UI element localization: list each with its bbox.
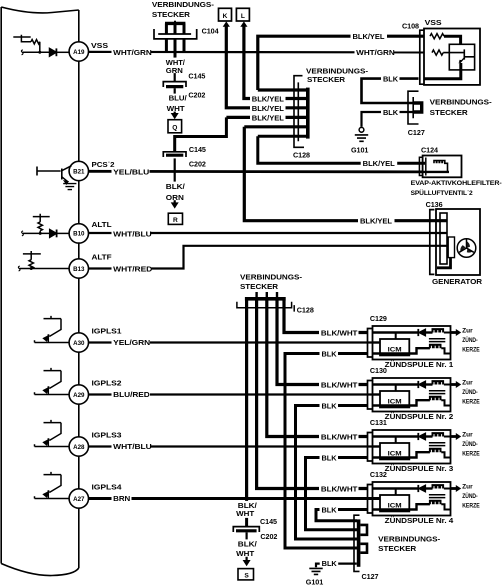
svg-text:BLK/: BLK/ bbox=[238, 540, 257, 549]
driver symbol at B21 (transistor to ground) bbox=[37, 166, 76, 190]
svg-text:WHT/BLU: WHT/BLU bbox=[113, 229, 152, 238]
svg-text:BRN: BRN bbox=[113, 494, 130, 503]
arrow into box R bbox=[171, 202, 179, 208]
svg-text:Zur: Zur bbox=[462, 379, 473, 386]
connector C145 (bottom) bbox=[233, 527, 259, 561]
svg-text:BLK/YEL: BLK/YEL bbox=[252, 114, 285, 123]
svg-text:A30: A30 bbox=[73, 340, 85, 347]
svg-text:KERZE: KERZE bbox=[462, 451, 480, 458]
svg-text:L: L bbox=[241, 13, 245, 20]
wire WHT/BLU A28 to coil 3 bbox=[89, 445, 381, 447]
wire pin 5 to coil 1 BLK/WHT bbox=[284, 301, 368, 333]
arrow into box S bbox=[243, 560, 251, 566]
wire WHT/RED B13 to generator bbox=[89, 246, 448, 269]
junction connector C127 (top) bbox=[408, 91, 422, 124]
svg-text:YEL/BLU: YEL/BLU bbox=[113, 167, 149, 176]
svg-text:SPÜLLUFTVENTIL˙2: SPÜLLUFTVENTIL˙2 bbox=[411, 188, 473, 197]
box R bbox=[168, 213, 182, 224]
wire label WHT/GRN (right) bbox=[355, 47, 395, 57]
wire WHT/GRN A19 to VSS bbox=[89, 51, 425, 54]
wire label BLK (coil1) bbox=[320, 349, 339, 359]
svg-text:C145: C145 bbox=[189, 145, 206, 154]
wire junction pin 1 to BLK/YEL bbox=[258, 88, 307, 91]
svg-text:KERZE: KERZE bbox=[462, 503, 480, 510]
wire label BLU/ WHT bbox=[165, 94, 186, 114]
svg-text:A28: A28 bbox=[73, 444, 85, 451]
ECM boundary top wavy edge bbox=[1, 7, 79, 13]
svg-text:KERZE: KERZE bbox=[462, 347, 480, 354]
svg-text:BLK: BLK bbox=[322, 505, 338, 514]
sensor VSS (C108) bbox=[420, 29, 480, 85]
wire label BLK/YEL (EVAP) bbox=[361, 159, 398, 169]
svg-text:C202: C202 bbox=[188, 91, 205, 100]
junction connector C128 (top) busbar bbox=[306, 88, 310, 139]
wire label WHT/ GRN (branch) bbox=[164, 58, 186, 75]
svg-text:BLU/RED: BLU/RED bbox=[113, 390, 150, 399]
ground G101 (bottom) bbox=[309, 568, 322, 574]
wire label BRN bbox=[112, 493, 132, 503]
svg-text:BLK: BLK bbox=[322, 401, 338, 410]
wire label BLK (coil3) bbox=[320, 453, 339, 463]
svg-text:G101: G101 bbox=[351, 145, 368, 154]
ignition coil unit 3 (C131, ZÜNDSPULE Nr.3) bbox=[368, 430, 462, 464]
wire pin 4 to coil 2 BLK/WHT bbox=[277, 301, 368, 385]
svg-text:ALTL: ALTL bbox=[92, 220, 113, 229]
wire BLK/YEL to generator bbox=[244, 127, 447, 221]
svg-text:BLK/YEL: BLK/YEL bbox=[360, 216, 393, 225]
svg-text:BLK/WHT: BLK/WHT bbox=[321, 381, 358, 390]
svg-text:C202: C202 bbox=[260, 532, 277, 541]
svg-text:BLK/: BLK/ bbox=[166, 182, 185, 191]
wire BLU/RED A29 to coil 2 bbox=[89, 393, 381, 395]
svg-text:C131: C131 bbox=[370, 418, 387, 427]
wire YEL/GRN A30 to coil 1 bbox=[89, 341, 381, 343]
wire label BLK/YEL (pin4) bbox=[250, 113, 286, 123]
ignition coil unit 1 (C129, ZÜNDSPULE Nr.1) bbox=[368, 326, 462, 360]
driver symbol at A19 (resistor + diode) bbox=[13, 35, 69, 57]
wire label WHT/GRN bbox=[112, 47, 152, 57]
wire label WHT/BLU (IGPLS3) bbox=[112, 441, 152, 451]
wire BLK C127 to G101 bbox=[362, 112, 415, 127]
svg-text:GENERATOR: GENERATOR bbox=[432, 277, 483, 286]
box S bbox=[238, 569, 254, 580]
svg-text:IGPLS2: IGPLS2 bbox=[92, 378, 122, 387]
svg-text:VSS: VSS bbox=[425, 18, 442, 27]
svg-text:WHT/GRN: WHT/GRN bbox=[113, 48, 152, 57]
driver symbol at A30 (transistor) bbox=[35, 316, 70, 343]
svg-text:VERBINDUNGS-: VERBINDUNGS- bbox=[378, 534, 441, 543]
pin circle A27 bbox=[69, 489, 88, 508]
svg-text:BLU/: BLU/ bbox=[169, 94, 187, 103]
svg-text:K: K bbox=[223, 13, 228, 20]
svg-text:ZÜND-: ZÜND- bbox=[462, 337, 478, 344]
svg-text:C145: C145 bbox=[260, 517, 277, 526]
svg-text:STECKER: STECKER bbox=[307, 75, 346, 84]
svg-text:VERBINDUNGS-: VERBINDUNGS- bbox=[152, 0, 215, 9]
svg-text:C127: C127 bbox=[362, 572, 379, 581]
wire BLK/YEL thick to VSS bbox=[258, 36, 424, 90]
svg-text:BLK: BLK bbox=[322, 349, 338, 358]
svg-text:BLK/WHT: BLK/WHT bbox=[321, 485, 358, 494]
svg-text:BLK: BLK bbox=[322, 453, 338, 462]
svg-text:STECKER: STECKER bbox=[378, 544, 417, 553]
svg-text:STECKER: STECKER bbox=[430, 108, 469, 117]
wire label BLK/YEL (pin3) bbox=[250, 104, 286, 114]
svg-text:VSS: VSS bbox=[91, 41, 108, 50]
svg-text:GRN: GRN bbox=[166, 66, 183, 75]
wire K stem to junction pin 3 bbox=[226, 25, 306, 108]
pin circle B21 bbox=[69, 161, 88, 180]
junction connector C128 (top) bracket bbox=[294, 76, 304, 148]
svg-text:C132: C132 bbox=[370, 470, 387, 479]
wire label WHT/BLU bbox=[112, 229, 152, 239]
driver symbol at A27 (transistor) bbox=[35, 472, 70, 499]
svg-text:ICM: ICM bbox=[388, 399, 402, 406]
pin circle A29 bbox=[69, 385, 88, 404]
svg-text:C202: C202 bbox=[189, 160, 206, 169]
wire L stem to junction pin 2 bbox=[244, 25, 307, 99]
svg-text:VERBINDUNGS-: VERBINDUNGS- bbox=[240, 273, 303, 282]
arrow into box Q bbox=[171, 113, 179, 119]
svg-text:BLK: BLK bbox=[383, 108, 399, 117]
ignition coil unit 4 (C132, ZÜNDSPULE Nr.4) bbox=[368, 482, 462, 516]
ignition coil unit 2 (C130, ZÜNDSPULE Nr.2) bbox=[368, 378, 462, 412]
svg-text:ALTF: ALTF bbox=[92, 252, 113, 261]
svg-text:WHT: WHT bbox=[236, 509, 255, 518]
svg-text:BLK: BLK bbox=[322, 559, 338, 568]
svg-text:KERZE: KERZE bbox=[462, 399, 480, 406]
svg-text:ZÜND-: ZÜND- bbox=[462, 389, 478, 396]
wire label BLK/ ORN bbox=[164, 182, 186, 202]
svg-text:C145: C145 bbox=[188, 71, 205, 80]
driver symbol at B10 (resistor + diode) bbox=[22, 214, 69, 238]
ECM boundary bottom wavy edge bbox=[1, 564, 79, 576]
wire label BLK/WHT (coil4) bbox=[319, 484, 359, 494]
wire label BLK (to C127 bottom) bbox=[320, 558, 339, 568]
wire pin 2 to coil 4 BLK/WHT bbox=[257, 301, 368, 489]
svg-text:ZÜNDSPULE Nr. 3: ZÜNDSPULE Nr. 3 bbox=[385, 464, 454, 473]
svg-text:IGPLS3: IGPLS3 bbox=[92, 430, 122, 439]
wire coil 2 BLK to C127 bbox=[296, 406, 368, 540]
wire YEL/BLU B21 to EVAP bbox=[89, 170, 423, 173]
box K with arrow bbox=[219, 8, 232, 27]
svg-text:WHT: WHT bbox=[167, 104, 186, 113]
svg-text:R: R bbox=[173, 217, 178, 224]
box Q bbox=[168, 120, 182, 133]
condenser branch: stem, C145/C202, arrow, box S bbox=[245, 499, 248, 527]
svg-text:S: S bbox=[244, 572, 249, 579]
pin circle A30 bbox=[69, 333, 88, 352]
svg-text:ICM: ICM bbox=[388, 347, 402, 354]
svg-text:BLK/YEL: BLK/YEL bbox=[353, 32, 386, 41]
svg-text:A29: A29 bbox=[73, 392, 85, 399]
svg-text:ZÜND-: ZÜND- bbox=[462, 493, 478, 500]
wire junction pin 4 bbox=[226, 116, 306, 119]
ground G101 (top) bbox=[355, 127, 368, 141]
svg-text:BLK: BLK bbox=[383, 74, 399, 83]
svg-text:C128: C128 bbox=[293, 151, 310, 160]
connector C104 bbox=[154, 21, 197, 58]
wire label BLK/WHT (coil3) bbox=[319, 432, 359, 442]
junction connector C128 (bottom) bbox=[237, 292, 294, 312]
wire label BLK/ WHT (upper condenser) bbox=[236, 501, 258, 518]
wire label YEL/GRN bbox=[112, 337, 151, 347]
svg-text:WHT/RED: WHT/RED bbox=[113, 265, 152, 274]
wire BLK C127 to G101 (bottom) bbox=[316, 564, 357, 568]
svg-text:C108: C108 bbox=[402, 21, 419, 30]
connector C145 (top, on WHT/GRN branch) bbox=[163, 56, 186, 114]
svg-text:B21: B21 bbox=[73, 168, 85, 175]
svg-text:C127: C127 bbox=[408, 128, 425, 137]
wire BRN A27 to coil 4 bbox=[89, 497, 381, 500]
svg-text:A27: A27 bbox=[73, 496, 85, 503]
svg-text:YEL/GRN: YEL/GRN bbox=[113, 338, 150, 347]
wire label BLK (coil4) bbox=[320, 505, 339, 515]
wire label WHT/RED bbox=[112, 264, 153, 274]
svg-text:A19: A19 bbox=[73, 49, 85, 56]
box L with arrow bbox=[236, 8, 249, 27]
svg-text:IGPLS4: IGPLS4 bbox=[92, 482, 122, 491]
ECM pin column wire bbox=[78, 10, 80, 568]
svg-text:ZÜNDSPULE Nr. 2: ZÜNDSPULE Nr. 2 bbox=[385, 412, 454, 421]
wire label BLK/WHT (coil2) bbox=[319, 380, 359, 390]
connector C145 (mid, on B21 branch) bbox=[163, 152, 186, 203]
svg-text:BLK/YEL: BLK/YEL bbox=[363, 159, 396, 168]
svg-text:C130: C130 bbox=[370, 366, 387, 375]
wire BLK VSS to C127 bbox=[362, 79, 419, 103]
driver symbol at A29 (transistor) bbox=[35, 368, 70, 395]
svg-text:VERBINDUNGS-: VERBINDUNGS- bbox=[430, 97, 493, 106]
svg-text:ZÜND-: ZÜND- bbox=[462, 441, 478, 448]
svg-text:Zur: Zur bbox=[462, 327, 473, 334]
valve EVAP C124 bbox=[419, 156, 461, 178]
pin circle A19 bbox=[69, 42, 88, 61]
ECM boundary left edge bbox=[0, 7, 2, 564]
wire WHT/BLU B10 to generator bbox=[89, 232, 448, 234]
wire junction pin 5 bbox=[244, 125, 306, 128]
wire label BLK/YEL (VSS) bbox=[351, 31, 388, 41]
junction connector C127 (bottom) bbox=[354, 515, 367, 571]
wire pin4 path to connector C145/C202 (mid) bbox=[175, 117, 227, 151]
wire label BLK/YEL (generator) bbox=[358, 216, 395, 226]
svg-text:Zur: Zur bbox=[462, 483, 473, 490]
svg-text:BLK/WHT: BLK/WHT bbox=[321, 433, 358, 442]
pin circle A28 bbox=[69, 437, 88, 456]
svg-text:EVAP-AKTIVKOHLEFILTER-: EVAP-AKTIVKOHLEFILTER- bbox=[411, 180, 502, 187]
svg-text:BLK/YEL: BLK/YEL bbox=[252, 104, 285, 113]
wire label BLK/YEL (pin2) bbox=[250, 94, 286, 104]
svg-text:ICM: ICM bbox=[388, 451, 402, 458]
wire label BLK/ WHT (lower condenser) bbox=[236, 539, 258, 557]
svg-text:C129: C129 bbox=[370, 314, 387, 323]
svg-text:G101: G101 bbox=[306, 577, 323, 586]
wire pin 1 to BRN and condenser branch bbox=[245, 301, 248, 499]
wire label BLU/RED bbox=[112, 389, 151, 399]
wire label BLK (VSS ground) bbox=[381, 74, 400, 83]
wire junction pin 6 to EVAP bbox=[258, 136, 425, 163]
svg-text:C104: C104 bbox=[202, 27, 219, 36]
svg-text:ZÜNDSPULE Nr. 4: ZÜNDSPULE Nr. 4 bbox=[385, 516, 454, 525]
wire coil 3 BLK to C127 bbox=[306, 458, 368, 530]
svg-text:WHT/BLU: WHT/BLU bbox=[113, 442, 152, 451]
svg-text:C128: C128 bbox=[297, 305, 314, 314]
svg-text:C124: C124 bbox=[421, 146, 438, 155]
svg-text:ICM: ICM bbox=[388, 503, 402, 510]
svg-text:PCS˙2: PCS˙2 bbox=[92, 160, 115, 169]
wire label YEL/BLU bbox=[112, 167, 150, 177]
svg-text:WHT: WHT bbox=[236, 549, 255, 558]
svg-text:B13: B13 bbox=[73, 266, 85, 273]
generator C136 bbox=[430, 209, 480, 275]
svg-text:BLK/YEL: BLK/YEL bbox=[252, 95, 285, 104]
svg-text:WHT/GRN: WHT/GRN bbox=[356, 48, 395, 57]
driver symbol at A28 (transistor) bbox=[35, 420, 70, 447]
svg-text:B10: B10 bbox=[73, 231, 85, 238]
svg-text:IGPLS1: IGPLS1 bbox=[92, 326, 122, 335]
pin circle B13 bbox=[69, 259, 88, 278]
wire coil 4 BLK to C127 bbox=[316, 510, 368, 521]
wire coil 1 BLK to C127 bbox=[285, 354, 368, 549]
wire pin 3 to coil 3 BLK/WHT bbox=[267, 301, 368, 437]
wire label BLK/WHT (coil1) bbox=[319, 328, 359, 338]
svg-text:ORN: ORN bbox=[166, 193, 184, 202]
wire label BLK (coil2) bbox=[320, 401, 339, 411]
svg-text:BLK/WHT: BLK/WHT bbox=[321, 329, 358, 338]
svg-text:STECKER: STECKER bbox=[240, 282, 279, 291]
svg-text:ZÜNDSPULE Nr. 1: ZÜNDSPULE Nr. 1 bbox=[385, 360, 454, 369]
svg-text:Q: Q bbox=[172, 124, 177, 131]
svg-text:STECKER: STECKER bbox=[152, 10, 191, 19]
svg-text:C136: C136 bbox=[426, 200, 443, 209]
driver symbol at B13 (resistor) bbox=[18, 251, 69, 271]
pin circle B10 bbox=[69, 224, 88, 243]
wire label BLK (C127 to G101) bbox=[381, 107, 400, 116]
svg-text:Zur: Zur bbox=[462, 431, 473, 438]
